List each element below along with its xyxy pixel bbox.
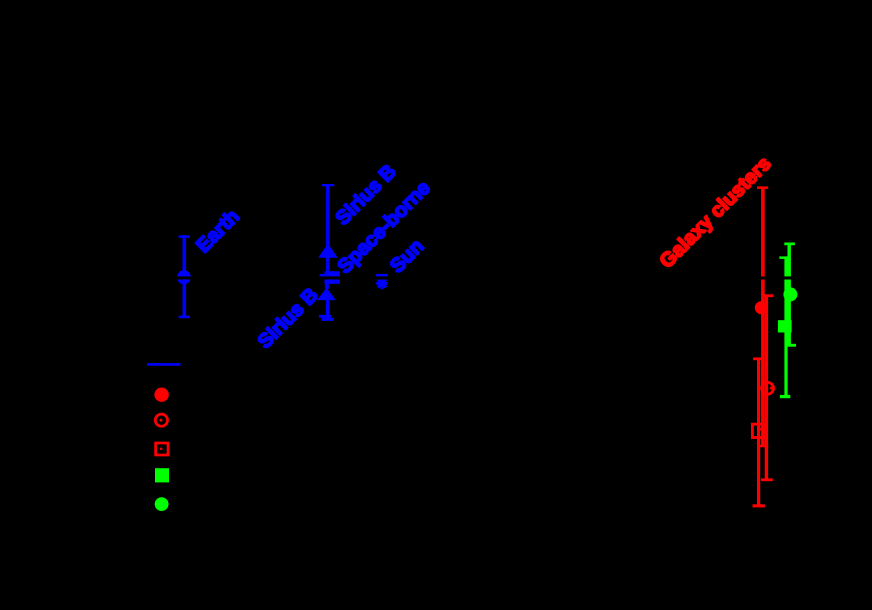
open circle center dot: [770, 387, 773, 390]
bar B line (open circle measurement): [765, 296, 768, 481]
green bar B line (filled circle measurement): [788, 244, 791, 346]
Sirius B (bottom) data point (filled triangle): [317, 288, 336, 300]
Sirius B (bottom) error bar line: [326, 300, 329, 319]
bar A bottom cap: [753, 504, 765, 507]
open square center dot: [760, 428, 762, 431]
galaxy cluster bar C line (filled circle measurement): [761, 187, 765, 447]
green filled square point: [778, 320, 792, 332]
galaxy clusters open square point: [752, 424, 766, 437]
galaxy clusters open circle point: [762, 382, 774, 394]
bar A top cap: [753, 357, 764, 360]
Sirius B (bottom) error bar bottom cap 1: [319, 315, 331, 318]
Sun error bar stub: [381, 275, 384, 280]
Sirius B (top) data point (filled triangle): [318, 243, 337, 257]
bar A line (open square measurement): [757, 359, 760, 507]
Space-borne data point (filled square): [325, 271, 341, 284]
Sirius B (bottom) error bar bottom cap 2: [322, 318, 334, 321]
legend sample line (blue): [147, 363, 181, 366]
wire between square and lower triangle: [325, 284, 329, 289]
green bar B bottom cap: [785, 344, 796, 347]
reference line (black, overdraws markers): [100, 276, 810, 279]
legend red open square: [156, 443, 168, 455]
galaxy clusters filled circle point: [755, 301, 768, 314]
legend red filled circle: [154, 388, 168, 402]
green filled circle point: [783, 287, 797, 301]
Earth data point (filled circle): [177, 270, 191, 284]
bar B bottom cap: [761, 478, 773, 481]
Earth error bar line: [183, 235, 187, 318]
Sirius B (top) error bar top cap: [322, 184, 334, 186]
bar C top cap: [757, 186, 768, 189]
Sun error bar cap: [376, 274, 388, 277]
bar B top cap: [763, 294, 774, 297]
Sun data point (asterisk): [376, 278, 388, 290]
legend open circle center dot: [159, 419, 162, 422]
green bar A top cap: [779, 256, 790, 259]
legend red open circle: [155, 414, 167, 426]
green bar B top cap: [784, 243, 795, 246]
Sirius B (top) error bar line: [326, 184, 329, 276]
Earth error bar bottom cap: [179, 316, 190, 319]
Sirius B (top) error bar bottom cap: [320, 274, 336, 277]
Earth error bar top cap: [179, 235, 190, 238]
bar C bottom cap: [757, 445, 768, 448]
legend green filled circle: [155, 497, 169, 511]
legend open square center dot: [160, 448, 163, 451]
green bar A line (filled square measurement): [784, 258, 787, 397]
green bar A bottom cap: [780, 395, 790, 398]
legend green filled square: [155, 468, 169, 482]
